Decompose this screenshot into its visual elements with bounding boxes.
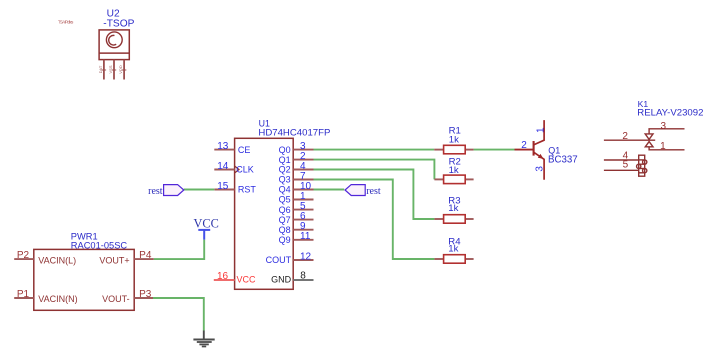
svg-text:5: 5 xyxy=(623,160,629,171)
svg-text:1k: 1k xyxy=(448,203,458,214)
svg-text:14: 14 xyxy=(217,161,229,172)
svg-text:VOUT+: VOUT+ xyxy=(99,255,129,265)
svg-text:3: 3 xyxy=(534,166,545,172)
svg-text:RST: RST xyxy=(238,185,257,195)
svg-text:rest: rest xyxy=(366,186,381,197)
svg-text:P2: P2 xyxy=(17,250,30,261)
svg-text:1: 1 xyxy=(660,141,666,152)
svg-text:VSS: VSS xyxy=(108,65,113,73)
svg-text:CLK: CLK xyxy=(236,165,254,175)
svg-text:2: 2 xyxy=(622,131,628,142)
svg-text:RELAY-V23092: RELAY-V23092 xyxy=(637,108,703,119)
svg-text:VCC: VCC xyxy=(194,216,219,230)
svg-text:P1: P1 xyxy=(17,289,30,300)
svg-text:12: 12 xyxy=(300,251,312,262)
svg-text:2: 2 xyxy=(521,140,527,151)
svg-text:Q9: Q9 xyxy=(279,235,291,245)
svg-text:VDD: VDD xyxy=(118,65,123,74)
svg-text:VACIN(N): VACIN(N) xyxy=(38,294,77,304)
svg-text:P4: P4 xyxy=(139,250,152,261)
svg-text:Q4: Q4 xyxy=(279,185,291,195)
svg-text:Q0: Q0 xyxy=(279,145,291,155)
svg-text:GND: GND xyxy=(271,275,292,285)
svg-text:Q1: Q1 xyxy=(279,155,291,165)
svg-text:VCC: VCC xyxy=(237,275,257,285)
svg-text:Q6: Q6 xyxy=(279,205,291,215)
svg-text:11: 11 xyxy=(300,231,311,242)
svg-text:TSAIPdtxs: TSAIPdtxs xyxy=(58,19,73,24)
svg-text:1k: 1k xyxy=(449,134,459,145)
svg-text:COUT: COUT xyxy=(266,255,292,265)
svg-text:-TSOP: -TSOP xyxy=(103,19,134,30)
svg-text:Q5: Q5 xyxy=(279,195,291,205)
svg-text:16: 16 xyxy=(217,271,229,282)
svg-text:VOUT-: VOUT- xyxy=(102,294,130,304)
svg-text:Q7: Q7 xyxy=(279,215,291,225)
svg-text:8: 8 xyxy=(300,271,306,282)
svg-text:Q8: Q8 xyxy=(279,225,291,235)
svg-text:HD74HC4017FP: HD74HC4017FP xyxy=(258,128,330,139)
svg-text:15: 15 xyxy=(217,181,229,192)
svg-text:1: 1 xyxy=(535,127,546,133)
svg-text:1k: 1k xyxy=(449,165,459,176)
svg-text:P3: P3 xyxy=(139,289,152,300)
svg-text:Q2: Q2 xyxy=(279,165,291,175)
svg-text:BC337: BC337 xyxy=(548,155,578,166)
svg-text:VACIN(L): VACIN(L) xyxy=(38,255,76,265)
svg-text:Q3: Q3 xyxy=(279,175,291,185)
svg-text:13: 13 xyxy=(217,141,229,152)
svg-text:3: 3 xyxy=(661,121,667,132)
svg-text:DAT: DAT xyxy=(98,65,103,73)
svg-text:1k: 1k xyxy=(448,244,458,255)
svg-text:CE: CE xyxy=(238,145,251,155)
svg-text:rest: rest xyxy=(148,186,163,197)
